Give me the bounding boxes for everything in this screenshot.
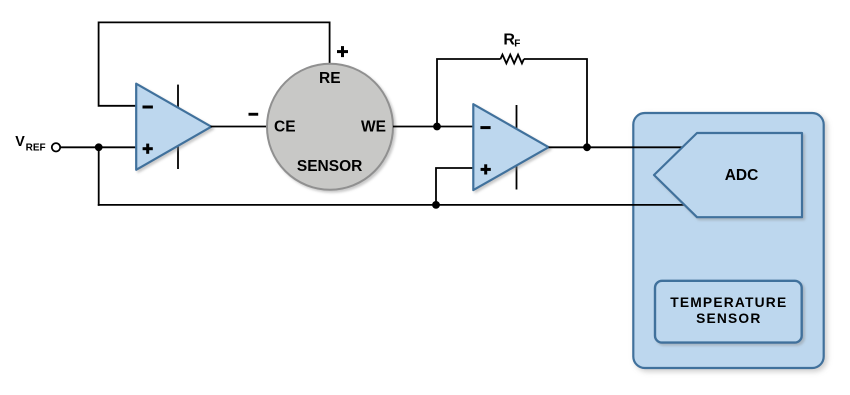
wire op-amp U1 inverting input feedback loop to sensor RE [99,22,330,105]
svg-text:F: F [514,39,520,50]
node junction at U2 inverting input [433,123,441,131]
label minus polarity at CE [249,113,259,116]
svg-text:RE: RE [319,70,341,87]
ADC block [654,133,802,217]
wire VREF to op-amp U1 noninverting input [60,146,136,148]
svg-text:SENSOR: SENSOR [297,158,362,175]
wire op-amp U2 output to ADC [549,146,683,148]
IC block (microcontroller) [633,113,823,368]
svg-text:TEMPERATURE: TEMPERATURE [670,295,787,310]
node junction on bottom bus [432,201,440,209]
svg-text:CE: CE [274,119,296,136]
wire feedback left segment up from junction [437,59,501,127]
node junction at U2 output [583,143,591,151]
resistor RF [501,55,524,64]
label plus polarity at RE [337,46,348,57]
wire junction down to bottom bus [98,147,100,206]
op-amp U2 [473,104,548,190]
svg-text:SENSOR: SENSOR [696,311,761,326]
sensor (electrochemical cell) [267,64,393,190]
terminal VREF [52,143,60,151]
node junction on VREF wire [95,143,103,151]
label RF [503,32,520,50]
svg-text:REF: REF [26,142,46,153]
wire bottom bus to ADC [98,204,685,206]
temperature sensor block [655,281,802,343]
label VREF [15,134,45,154]
wire op-amp U1 output to sensor CE [211,126,269,128]
wire sensor WE to op-amp U2 inverting input [393,126,474,128]
svg-text:V: V [15,134,25,150]
wire feedback right segment down to output node [524,59,587,147]
op-amp U1 [136,84,211,170]
wire bus junction to op-amp U2 noninverting input [436,168,474,205]
svg-text:WE: WE [361,119,386,136]
svg-text:ADC: ADC [725,167,759,184]
